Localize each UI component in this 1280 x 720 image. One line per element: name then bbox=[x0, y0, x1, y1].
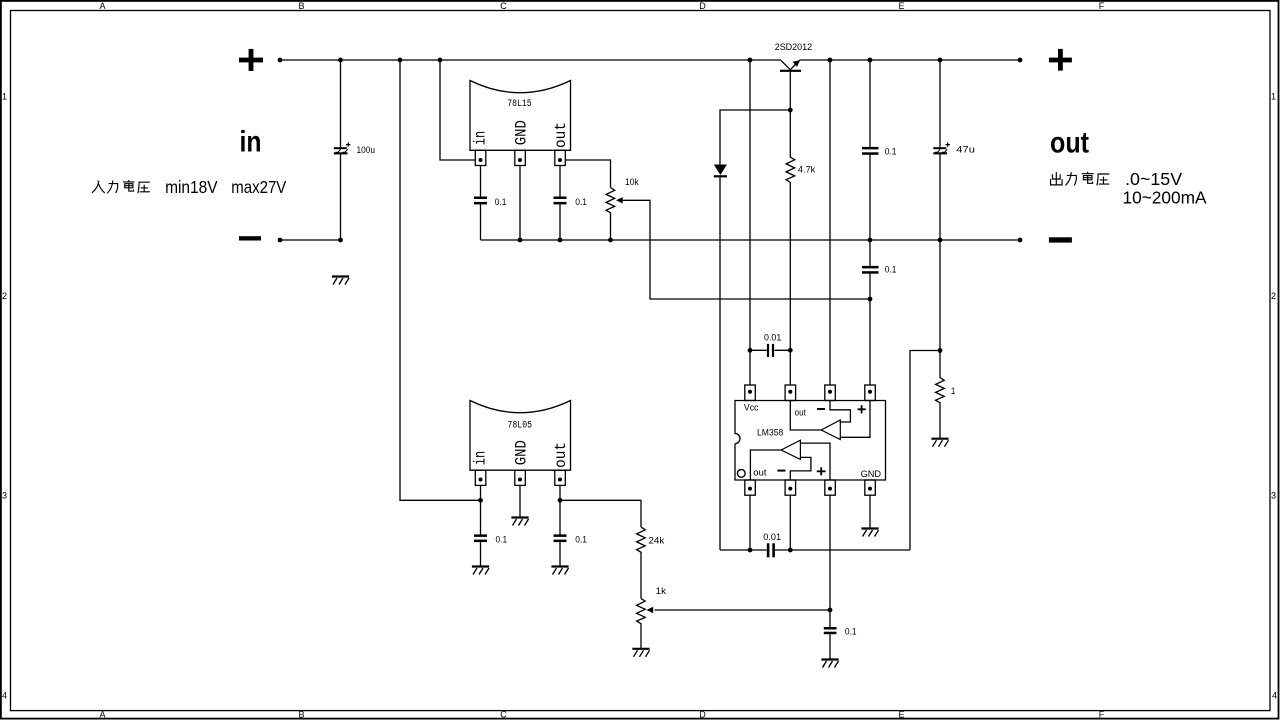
wire 78L05 out pin bbox=[559, 485, 561, 534]
op-amp 1 triangle bbox=[781, 440, 800, 459]
node output - terminal bbox=[1018, 238, 1023, 243]
wire out2 internal bbox=[790, 401, 821, 431]
svg-text:C: C bbox=[500, 710, 507, 720]
minus sign op2 bbox=[817, 408, 825, 410]
node 78L05 out bbox=[558, 498, 563, 503]
wire in1- branch bbox=[910, 351, 940, 551]
wire bottom rail main bbox=[481, 239, 1021, 241]
svg-text:GND: GND bbox=[512, 440, 530, 465]
plus terminal output bbox=[1049, 49, 1072, 71]
wire 78L05 gnd pin bbox=[519, 485, 521, 517]
svg-text:LM358: LM358 bbox=[757, 427, 783, 438]
plus sign op2 bbox=[858, 405, 866, 413]
node 100u bottom bbox=[338, 238, 343, 243]
wire out1 pin down bbox=[749, 495, 751, 550]
wire 78L05 out to 24k bbox=[560, 500, 641, 527]
wiper arrow 10k bbox=[616, 197, 623, 203]
node in2- feed bbox=[828, 58, 833, 63]
kanji atsu 圧 bbox=[1097, 174, 1109, 185]
svg-text:2: 2 bbox=[2, 291, 7, 301]
kanji den 電 bbox=[124, 181, 135, 192]
capacitor 0.1 under 78L05 in bbox=[474, 534, 487, 542]
plus sign op1 bbox=[817, 467, 826, 475]
svg-text:out: out bbox=[552, 122, 570, 148]
78L05 outline bbox=[470, 401, 571, 471]
pin box Vcc bbox=[745, 385, 756, 401]
wire 78L15 gnd down bbox=[519, 166, 521, 241]
kanji shutsu 出 bbox=[1051, 173, 1063, 185]
minus terminal output bbox=[1049, 237, 1072, 242]
op-amp U1 LM358 body bbox=[735, 385, 886, 495]
node cap out 78L15 bbox=[558, 238, 563, 243]
wire 78L05 in pin bbox=[480, 485, 482, 534]
node cap870 top bbox=[868, 58, 873, 63]
svg-text:.0~15V: .0~15V bbox=[1125, 169, 1182, 189]
node 78L05 in bbox=[478, 498, 483, 503]
svg-text:1: 1 bbox=[1271, 92, 1276, 102]
capacitor 0.01 bottom bbox=[720, 543, 910, 557]
wire below cap out bbox=[559, 204, 561, 240]
wire 1k wiper to in1+ bbox=[655, 609, 831, 611]
svg-text:10k: 10k bbox=[625, 177, 639, 188]
wiper arrow 1k bbox=[647, 607, 654, 613]
minus terminal input bbox=[239, 236, 261, 240]
wire in1+ pin down bbox=[829, 495, 831, 610]
capacitor C2 47u electrolytic bbox=[933, 60, 950, 240]
regulator 78L15 body and pin stubs bbox=[470, 81, 571, 166]
capacitor 0.01 top bbox=[750, 344, 790, 357]
ground 1k bbox=[632, 649, 649, 657]
svg-text:47u: 47u bbox=[956, 144, 975, 155]
wire 78L15 in pin down bbox=[480, 166, 482, 197]
pin box out2 bbox=[785, 385, 796, 401]
node output + terminal bbox=[1018, 58, 1023, 63]
svg-text:in: in bbox=[472, 451, 490, 466]
wire top rail right bbox=[799, 59, 1020, 61]
capacitor 0.1 under 78L15 out bbox=[554, 197, 567, 205]
node 47u bottom bbox=[938, 238, 943, 243]
wire 78L15 in to top rail bbox=[440, 60, 475, 160]
ground in1+ cap bbox=[821, 660, 838, 668]
wire in1+ internal bbox=[800, 443, 830, 480]
svg-text:2: 2 bbox=[1271, 291, 1276, 301]
svg-text:out: out bbox=[795, 408, 807, 419]
wire below cap in05 bbox=[480, 542, 482, 567]
pin stub in 05 bbox=[475, 470, 486, 485]
svg-text:1: 1 bbox=[951, 386, 956, 397]
wire 10k wiper to in2+ bbox=[623, 200, 870, 299]
INPUT TERMINALS bbox=[239, 49, 1072, 243]
svg-text:D: D bbox=[699, 1, 706, 11]
kanji ryoku 力 bbox=[1066, 173, 1077, 185]
node 78L15 feed bbox=[438, 58, 443, 63]
ground cap out05 bbox=[551, 567, 568, 575]
node R1 top bbox=[938, 348, 943, 353]
svg-text:1: 1 bbox=[2, 92, 7, 102]
wire below cap out05 bbox=[559, 542, 561, 567]
svg-text:0.1: 0.1 bbox=[885, 146, 897, 157]
regulator 78L05 body and pin stubs bbox=[470, 401, 571, 486]
svg-text:min18V: min18V bbox=[165, 177, 218, 197]
svg-text:24k: 24k bbox=[648, 536, 664, 547]
svg-text:A: A bbox=[99, 710, 105, 720]
pin stub out 05 bbox=[555, 470, 566, 485]
minus sign op1 bbox=[777, 470, 785, 472]
svg-text:0.1: 0.1 bbox=[575, 197, 587, 208]
svg-text:Vcc: Vcc bbox=[744, 403, 759, 414]
svg-text:max27V: max27V bbox=[231, 177, 286, 197]
potentiometer VR2 1k bbox=[637, 598, 646, 648]
svg-text:0.01: 0.01 bbox=[764, 333, 781, 344]
svg-text:3: 3 bbox=[2, 491, 7, 501]
svg-text:B: B bbox=[298, 710, 304, 720]
svg-text:B: B bbox=[298, 1, 304, 11]
capacitor 0.1 at in1+ bbox=[824, 610, 837, 660]
svg-text:1k: 1k bbox=[656, 586, 667, 597]
svg-text:C: C bbox=[500, 1, 507, 11]
svg-text:4.7k: 4.7k bbox=[798, 165, 816, 176]
wire below cap in bbox=[480, 204, 482, 240]
svg-text:78L15: 78L15 bbox=[507, 99, 532, 110]
node in1- cap bbox=[788, 548, 793, 553]
wire in1- internal bbox=[790, 457, 811, 480]
pin stub GND bbox=[515, 150, 526, 165]
wire Vcc lead bbox=[749, 60, 751, 385]
transistor Q1 2SD2012 bbox=[780, 60, 801, 110]
svg-text:0.1: 0.1 bbox=[496, 535, 508, 546]
resistor R3 24k bbox=[637, 527, 646, 598]
node 10k bottom bbox=[608, 238, 613, 243]
pin box in1- bbox=[785, 480, 796, 495]
resistor R2 4.7k bbox=[786, 110, 795, 385]
wire 78L15 out to 10k bbox=[565, 160, 610, 188]
capacitor 0.1 under 78L05 out bbox=[554, 534, 567, 542]
node 0.01 left bbox=[748, 348, 753, 353]
svg-text:D: D bbox=[699, 710, 706, 720]
node input - terminal bbox=[278, 238, 283, 243]
node base junction bbox=[788, 108, 793, 113]
node out1/diode bbox=[748, 548, 753, 553]
pin box in1+ bbox=[825, 480, 836, 495]
svg-text:out: out bbox=[552, 442, 570, 468]
node gnd 78L15 bbox=[518, 238, 523, 243]
svg-text:F: F bbox=[1099, 1, 1105, 11]
wire in2- internal bbox=[830, 401, 850, 423]
plus terminal input bbox=[239, 49, 263, 71]
ground cap in05 bbox=[472, 567, 489, 575]
capacitor 0.1 rail bypass (870 top) bbox=[862, 60, 879, 240]
node in1+ wiper bbox=[828, 608, 833, 613]
KANJI input voltage 入力電圧 bbox=[92, 181, 149, 193]
ground input bbox=[332, 277, 349, 285]
node 0.01 right bbox=[788, 348, 793, 353]
svg-text:F: F bbox=[1099, 710, 1105, 720]
pin dots LM358 bbox=[748, 390, 872, 491]
wire in2+ internal bbox=[840, 401, 870, 438]
svg-text:0.1: 0.1 bbox=[885, 265, 897, 276]
node input + terminal bbox=[278, 58, 283, 63]
kanji atsu 圧 bbox=[138, 182, 150, 193]
WIRES: top rail bbox=[280, 59, 1020, 61]
ground R1 bbox=[931, 439, 948, 447]
pin box in2+ bbox=[865, 385, 876, 401]
svg-text:0.1: 0.1 bbox=[575, 535, 587, 546]
pin stub GND 05 bbox=[515, 470, 526, 485]
node 47u top bbox=[938, 58, 943, 63]
svg-text:0.1: 0.1 bbox=[495, 197, 507, 208]
pin box in2- bbox=[825, 385, 836, 401]
node 100u top bbox=[338, 58, 343, 63]
svg-text:10~200mA: 10~200mA bbox=[1123, 188, 1207, 208]
potentiometer VR1 10k bbox=[606, 188, 615, 241]
svg-text:4: 4 bbox=[2, 691, 7, 701]
node cap870 rail bbox=[868, 238, 873, 243]
wire 78L15 out pin down bbox=[559, 166, 561, 197]
wire input minus rail bbox=[280, 239, 341, 241]
svg-text:A: A bbox=[99, 1, 105, 11]
ground LM358 gnd pin bbox=[861, 529, 878, 537]
pin stub in bbox=[475, 150, 486, 165]
pin dots 78L15 bbox=[479, 158, 563, 162]
capacitor C1 100u electrolytic bbox=[334, 60, 351, 240]
kanji nyuu 入 bbox=[92, 181, 104, 193]
wire in2- lead bbox=[829, 60, 831, 385]
wire feed from top rail to 78L05 in bbox=[400, 60, 481, 500]
pin stub out bbox=[555, 150, 566, 165]
svg-text:E: E bbox=[898, 710, 904, 720]
svg-text:GND: GND bbox=[512, 120, 530, 145]
svg-text:in: in bbox=[240, 126, 262, 159]
pin box GND bbox=[865, 480, 876, 495]
svg-text:2SD2012: 2SD2012 bbox=[775, 42, 813, 53]
svg-text:78L05: 78L05 bbox=[508, 421, 533, 432]
ground 78L05 gnd bbox=[511, 518, 528, 526]
node wiper/in2+ bbox=[868, 297, 873, 302]
wire out1 internal bbox=[750, 450, 781, 480]
svg-text:E: E bbox=[898, 1, 904, 11]
pin dots 78L05 bbox=[479, 478, 563, 482]
diode D1 bbox=[714, 110, 791, 550]
pin 1 circle marker bbox=[737, 470, 745, 478]
pin box out1 bbox=[745, 480, 756, 495]
svg-text:3: 3 bbox=[1271, 491, 1276, 501]
node 78L05 feed bbox=[398, 58, 403, 63]
node Vcc feed bbox=[748, 58, 753, 63]
KANJI output voltage 出力電圧 bbox=[1051, 172, 1109, 185]
kanji den 電 bbox=[1082, 172, 1093, 183]
svg-text:0.01: 0.01 bbox=[763, 532, 781, 543]
svg-text:GND: GND bbox=[861, 469, 882, 480]
wire top rail left bbox=[280, 59, 781, 61]
op-amp 2 triangle bbox=[821, 420, 840, 440]
svg-text:100u: 100u bbox=[357, 145, 376, 156]
svg-text:0.1: 0.1 bbox=[845, 626, 857, 637]
capacitor 0.1 under 78L15 in bbox=[474, 197, 487, 205]
capacitor 0.1 in2+ bypass (870 mid) bbox=[862, 240, 879, 385]
wire in1- pin down bbox=[789, 495, 791, 550]
svg-text:out: out bbox=[753, 467, 767, 478]
svg-text:4: 4 bbox=[1272, 691, 1277, 701]
kanji ryoku 力 bbox=[108, 181, 118, 193]
svg-text:in: in bbox=[472, 131, 490, 146]
resistor R1 1 ohm current sense bbox=[936, 240, 945, 439]
svg-text:out: out bbox=[1050, 127, 1089, 160]
wire gnd pin down bbox=[869, 495, 871, 528]
78L15 outline bbox=[470, 81, 571, 151]
